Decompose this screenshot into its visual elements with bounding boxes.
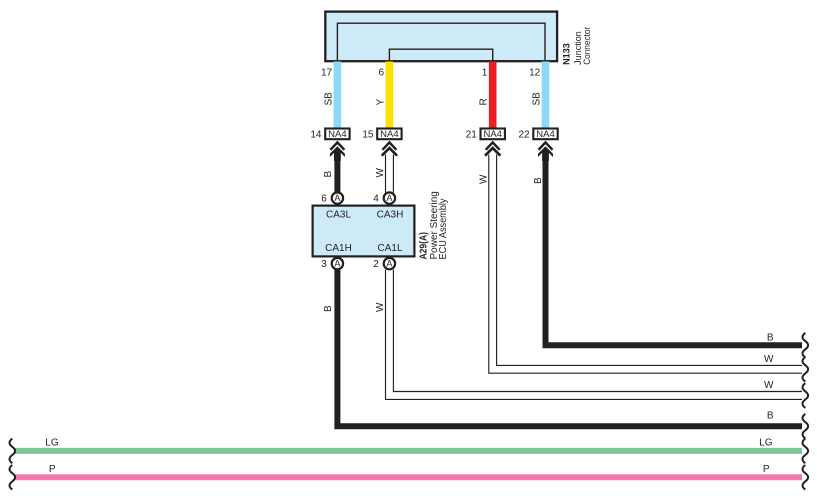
svg-text:Y: Y (375, 99, 386, 106)
svg-text:17: 17 (321, 68, 333, 79)
continuation brace left of wire LG (10, 439, 16, 464)
svg-text:6: 6 (379, 68, 385, 79)
svg-text:A: A (386, 259, 392, 269)
connector NA4 terminal 14 (310, 129, 349, 141)
svg-text:3: 3 (321, 259, 327, 270)
svg-text:W: W (375, 168, 386, 178)
label Power Steering ECU Assembly (429, 191, 449, 259)
svg-text:2: 2 (373, 259, 379, 270)
svg-text:B: B (767, 333, 774, 344)
ECU pin 6 circled A (321, 192, 343, 204)
continuation brace left of wire P (10, 465, 16, 490)
ECU pin 4 circled A (373, 192, 395, 204)
svg-text:SB: SB (323, 92, 334, 106)
svg-text:CA1H: CA1H (325, 243, 352, 254)
internal busbar joining pins 17 and 12 (337, 23, 545, 61)
svg-text:W: W (375, 302, 386, 312)
male connector arrow at NA4 22 (538, 142, 553, 161)
power steering ECU assembly A29(A) box (313, 206, 415, 257)
svg-text:LG: LG (45, 438, 59, 449)
continuation brace right of wire B (ECU pin 3) (803, 414, 809, 439)
svg-text:P: P (49, 464, 56, 475)
svg-text:NA4: NA4 (328, 129, 346, 140)
svg-text:P: P (763, 464, 770, 475)
wire B from ECU pin 3 down and right to splice (337, 270, 802, 427)
svg-text:W: W (764, 380, 774, 391)
ECU pin 3 circled A (321, 258, 343, 270)
connector NA4 terminal 15 (362, 129, 401, 141)
continuation brace right of wire W (NA4 21) (803, 357, 809, 382)
svg-text:R: R (479, 98, 490, 105)
wire SB from N133 pin 12 (542, 62, 550, 129)
male connector arrow at NA4 14 (330, 142, 345, 161)
wire Y from N133 pin 6 (386, 62, 394, 129)
svg-text:A: A (334, 259, 340, 269)
svg-text:14: 14 (310, 130, 322, 141)
svg-text:NA4: NA4 (380, 129, 398, 140)
svg-text:NA4: NA4 (536, 129, 554, 140)
svg-text:A: A (334, 193, 340, 203)
ECU pin 2 circled A (373, 258, 395, 270)
svg-text:LG: LG (759, 438, 773, 449)
label Junction Connector (573, 27, 592, 65)
wire R from N133 pin 1 (489, 62, 497, 129)
connector NA4 terminal 21 (466, 129, 505, 141)
wire LG horizontal (15, 448, 802, 454)
wire P horizontal (15, 474, 802, 480)
svg-text:B: B (323, 305, 334, 312)
continuation brace right of wire W (ECU pin 2) (803, 383, 809, 408)
svg-text:1: 1 (482, 68, 488, 79)
female connector arrow at NA4 15 (382, 142, 397, 155)
svg-text:22: 22 (518, 130, 530, 141)
svg-text:Connector: Connector (582, 27, 592, 65)
junction connector N133 box (325, 12, 557, 62)
svg-text:B: B (323, 171, 334, 178)
svg-text:21: 21 (466, 130, 478, 141)
continuation brace right of wire P (803, 465, 809, 490)
svg-text:CA3L: CA3L (326, 210, 351, 221)
svg-text:A: A (386, 193, 392, 203)
svg-text:W: W (478, 174, 489, 184)
svg-text:NA4: NA4 (483, 129, 501, 140)
wire B from NA4 14 to ECU pin 6 (334, 154, 340, 193)
continuation brace right of wire LG (803, 439, 809, 464)
female connector arrow at NA4 21 (485, 142, 500, 155)
svg-text:CA1L: CA1L (377, 243, 402, 254)
svg-text:B: B (533, 177, 544, 184)
connector NA4 terminal 22 (518, 129, 557, 141)
svg-text:W: W (764, 354, 774, 365)
wire B from NA4 22 down and right to splice (546, 154, 803, 345)
continuation brace right of wire B (NA4 22) (803, 333, 809, 358)
wire SB from N133 pin 17 (334, 62, 342, 129)
svg-text:N133: N133 (562, 43, 572, 65)
wire W from NA4 21 down and right to splice (489, 155, 802, 374)
svg-text:A29(A): A29(A) (419, 232, 430, 260)
svg-text:15: 15 (362, 130, 374, 141)
internal busbar joining pins 6 and 1 (389, 49, 492, 61)
svg-text:12: 12 (529, 68, 541, 79)
svg-text:SB: SB (531, 92, 542, 106)
svg-text:6: 6 (321, 194, 327, 205)
wire W from NA4 15 to ECU pin 4 (386, 155, 394, 193)
svg-text:B: B (767, 411, 774, 422)
svg-text:4: 4 (373, 194, 379, 205)
svg-text:CA3H: CA3H (377, 210, 404, 221)
svg-text:ECU Assembly: ECU Assembly (438, 199, 449, 260)
wire W from ECU pin 2 down and right to splice (386, 270, 803, 400)
